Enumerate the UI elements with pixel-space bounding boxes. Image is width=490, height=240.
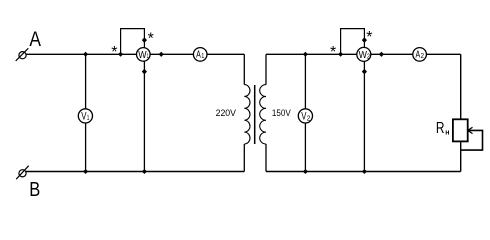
wattmeter W2 [357,47,371,61]
svg-text:150V: 150V [272,108,291,118]
svg-text:W: W [359,50,368,61]
wattmeter W2 voltage-coil loop [341,29,365,55]
node: W2 top terminal diamond [362,37,367,43]
terminal A [16,48,29,61]
transformer core [254,85,256,144]
rheostat wiper arrow [461,130,483,150]
svg-text:R: R [436,120,445,137]
transformer primary winding [244,85,250,144]
wattmeter W1 voltage-coil loop [121,29,145,55]
node: diamond right of W2 [379,52,384,57]
ammeter A1 [193,48,207,62]
wire: bottom-left horizontal (B to transformer primary) [26,171,244,173]
rheostat wiper arrowhead [468,127,473,133]
node: W1 top terminal diamond [142,37,147,43]
svg-text:н: н [445,130,449,137]
svg-text:B: B [29,179,40,201]
voltmeter V2 [298,109,312,123]
svg-text:A: A [196,49,201,60]
transformer secondary winding [260,85,266,144]
node: diamond right of W1 [159,52,164,57]
svg-text:1: 1 [147,53,149,60]
wire: V2 branch vertical [304,54,306,171]
svg-text:A: A [416,49,421,60]
wire: load bottom lead [460,141,462,171]
terminal B [16,166,29,180]
wire: secondary top lead [265,54,267,84]
node: V1 top junction [83,52,88,57]
svg-text:1: 1 [87,113,90,122]
svg-text:2: 2 [367,54,370,61]
svg-text:220V: 220V [216,108,236,118]
node: W1 lower terminal diamond [142,69,147,75]
svg-text:A: A [29,27,41,51]
wire: primary top lead [243,54,245,84]
wire: top-left horizontal (A to transformer primary) [26,53,244,55]
svg-text:*: * [366,29,372,46]
wire: top-right horizontal [266,53,461,55]
node: W2 left junction [338,52,343,57]
node: V1 bottom junction [83,169,88,174]
wire: V1 branch vertical [85,54,87,171]
svg-text:2: 2 [307,114,311,123]
svg-text:*: * [330,44,336,61]
voltmeter V1 [78,109,92,123]
node: W1 left junction [118,52,123,57]
svg-text:*: * [111,44,117,61]
node: W2 bottom junction [362,169,367,174]
wire: bottom-right horizontal [266,171,461,173]
node: V2 bottom junction [303,169,308,174]
node: W1 bottom junction [142,169,147,174]
wire: secondary bottom lead [265,144,267,172]
wire: primary bottom lead [243,144,245,172]
wire: W1 voltage coil to bottom [143,58,145,172]
wattmeter W1 [137,48,151,62]
svg-text:*: * [148,30,154,47]
wire: W2 voltage coil to bottom [363,58,365,172]
svg-text:2: 2 [421,51,424,60]
svg-text:1: 1 [201,51,204,60]
wire: right vertical to load [460,54,462,119]
node: V2 top junction [303,52,308,57]
node: W2 lower terminal diamond [362,69,367,75]
ammeter A2 [413,48,427,62]
resistor Rн (load rheostat) body [453,119,468,141]
